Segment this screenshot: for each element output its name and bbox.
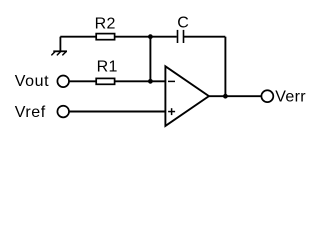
svg-text:Verr: Verr — [275, 89, 306, 106]
wire feedback vertical — [224, 37, 226, 96]
node output junction — [223, 94, 228, 99]
svg-text:R1: R1 — [97, 59, 118, 76]
svg-text:R2: R2 — [95, 16, 116, 33]
wire capacitor to right corner — [184, 36, 226, 38]
node A — [148, 34, 153, 39]
wire Vref to op-amp non-inverting input — [69, 111, 165, 113]
node B — [148, 79, 153, 84]
wire ground to R2 — [60, 36, 96, 38]
svg-text:C: C — [177, 14, 189, 31]
wire Vout to R1 — [69, 80, 96, 82]
wire R2 to node A and capacitor — [114, 36, 177, 38]
terminal Vref — [57, 106, 69, 118]
terminal Vout — [57, 76, 69, 88]
wire R1 to op-amp inverting input — [114, 80, 165, 82]
wire op-amp output to Verr — [209, 95, 262, 97]
svg-text:Vref: Vref — [15, 104, 46, 121]
pin plus — [168, 108, 175, 115]
terminal Verr — [261, 90, 273, 102]
capacitor C — [178, 30, 184, 43]
ground — [52, 37, 67, 55]
resistor R1 — [96, 78, 114, 84]
wire node A down to node B — [149, 37, 151, 82]
op-amp U1 — [165, 66, 209, 126]
resistor R2 — [96, 34, 114, 40]
pin minus — [168, 80, 175, 82]
svg-text:Vout: Vout — [15, 73, 49, 90]
